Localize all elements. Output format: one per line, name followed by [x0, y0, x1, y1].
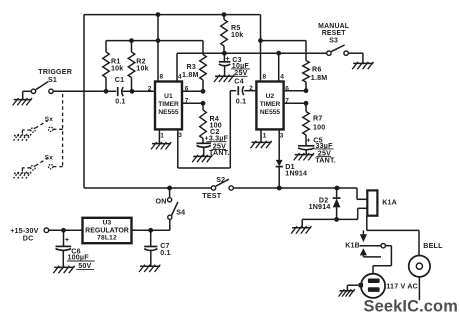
svg-text:S1: S1 — [48, 76, 57, 84]
svg-text:2: 2 — [249, 85, 253, 92]
svg-text:K1A: K1A — [382, 199, 397, 207]
svg-text:TIMER: TIMER — [260, 101, 281, 108]
svg-text:1.8M: 1.8M — [182, 71, 199, 79]
svg-text:1.8M: 1.8M — [311, 74, 328, 82]
svg-text:0.1: 0.1 — [115, 97, 125, 105]
svg-text:R3: R3 — [187, 63, 196, 71]
svg-text:K1B: K1B — [345, 242, 360, 250]
svg-text:U3: U3 — [103, 219, 112, 226]
svg-text:Sx: Sx — [45, 116, 53, 123]
svg-text:4: 4 — [178, 73, 182, 80]
svg-text:6: 6 — [185, 85, 189, 92]
svg-text:TEST: TEST — [202, 192, 221, 200]
svg-text:+: + — [225, 54, 230, 63]
svg-text:7: 7 — [285, 97, 289, 104]
svg-text:4: 4 — [280, 73, 284, 80]
svg-text:TRIGGER: TRIGGER — [38, 68, 72, 76]
svg-text:C4: C4 — [234, 78, 243, 86]
svg-text:DC: DC — [23, 234, 34, 242]
svg-text:SeekIC.com: SeekIC.com — [364, 298, 458, 316]
svg-text:1: 1 — [160, 132, 164, 139]
svg-text:2: 2 — [148, 85, 152, 92]
svg-text:8: 8 — [263, 73, 267, 80]
svg-text:R6: R6 — [312, 65, 321, 73]
svg-text:1N914: 1N914 — [285, 169, 307, 177]
svg-text:10k: 10k — [136, 64, 148, 72]
svg-text:10k: 10k — [231, 31, 243, 39]
svg-text:0.1: 0.1 — [160, 249, 170, 257]
svg-text:S2: S2 — [216, 176, 225, 184]
svg-text:REGULATOR: REGULATOR — [85, 227, 129, 234]
svg-text:TIMER: TIMER — [158, 101, 179, 108]
svg-text:MANUAL: MANUAL — [318, 23, 349, 30]
svg-text:3: 3 — [178, 132, 182, 139]
svg-text:BELL: BELL — [423, 242, 443, 250]
svg-text:ON: ON — [156, 197, 167, 205]
svg-text:100µF: 100µF — [68, 253, 90, 261]
svg-text:U2: U2 — [266, 93, 275, 100]
svg-text:C1: C1 — [115, 76, 124, 84]
svg-text:7: 7 — [185, 97, 189, 104]
svg-text:TANT.: TANT. — [315, 156, 336, 164]
svg-text:+: + — [65, 235, 70, 244]
svg-text:U1: U1 — [164, 93, 173, 100]
svg-text:10k: 10k — [111, 64, 123, 72]
svg-text:+: + — [306, 135, 311, 144]
svg-text:TANT.: TANT. — [209, 149, 230, 157]
svg-text:1N914: 1N914 — [309, 203, 331, 211]
svg-text:0.1: 0.1 — [236, 97, 246, 105]
svg-text:50V: 50V — [78, 262, 91, 270]
svg-text:3: 3 — [280, 133, 284, 140]
svg-text:6: 6 — [285, 85, 289, 92]
svg-text:S4: S4 — [176, 208, 185, 216]
svg-text:8: 8 — [160, 73, 164, 80]
svg-text:Sx: Sx — [45, 154, 53, 161]
svg-text:NE555: NE555 — [158, 109, 178, 116]
svg-text:S3: S3 — [329, 38, 338, 45]
svg-text:R7: R7 — [313, 115, 322, 123]
svg-text:100: 100 — [313, 123, 325, 131]
svg-text:NE555: NE555 — [260, 109, 280, 116]
svg-text:117 V AC: 117 V AC — [386, 282, 418, 290]
svg-text:RESET: RESET — [322, 30, 347, 37]
svg-text:1: 1 — [263, 132, 267, 139]
svg-text:78L12: 78L12 — [97, 235, 117, 242]
